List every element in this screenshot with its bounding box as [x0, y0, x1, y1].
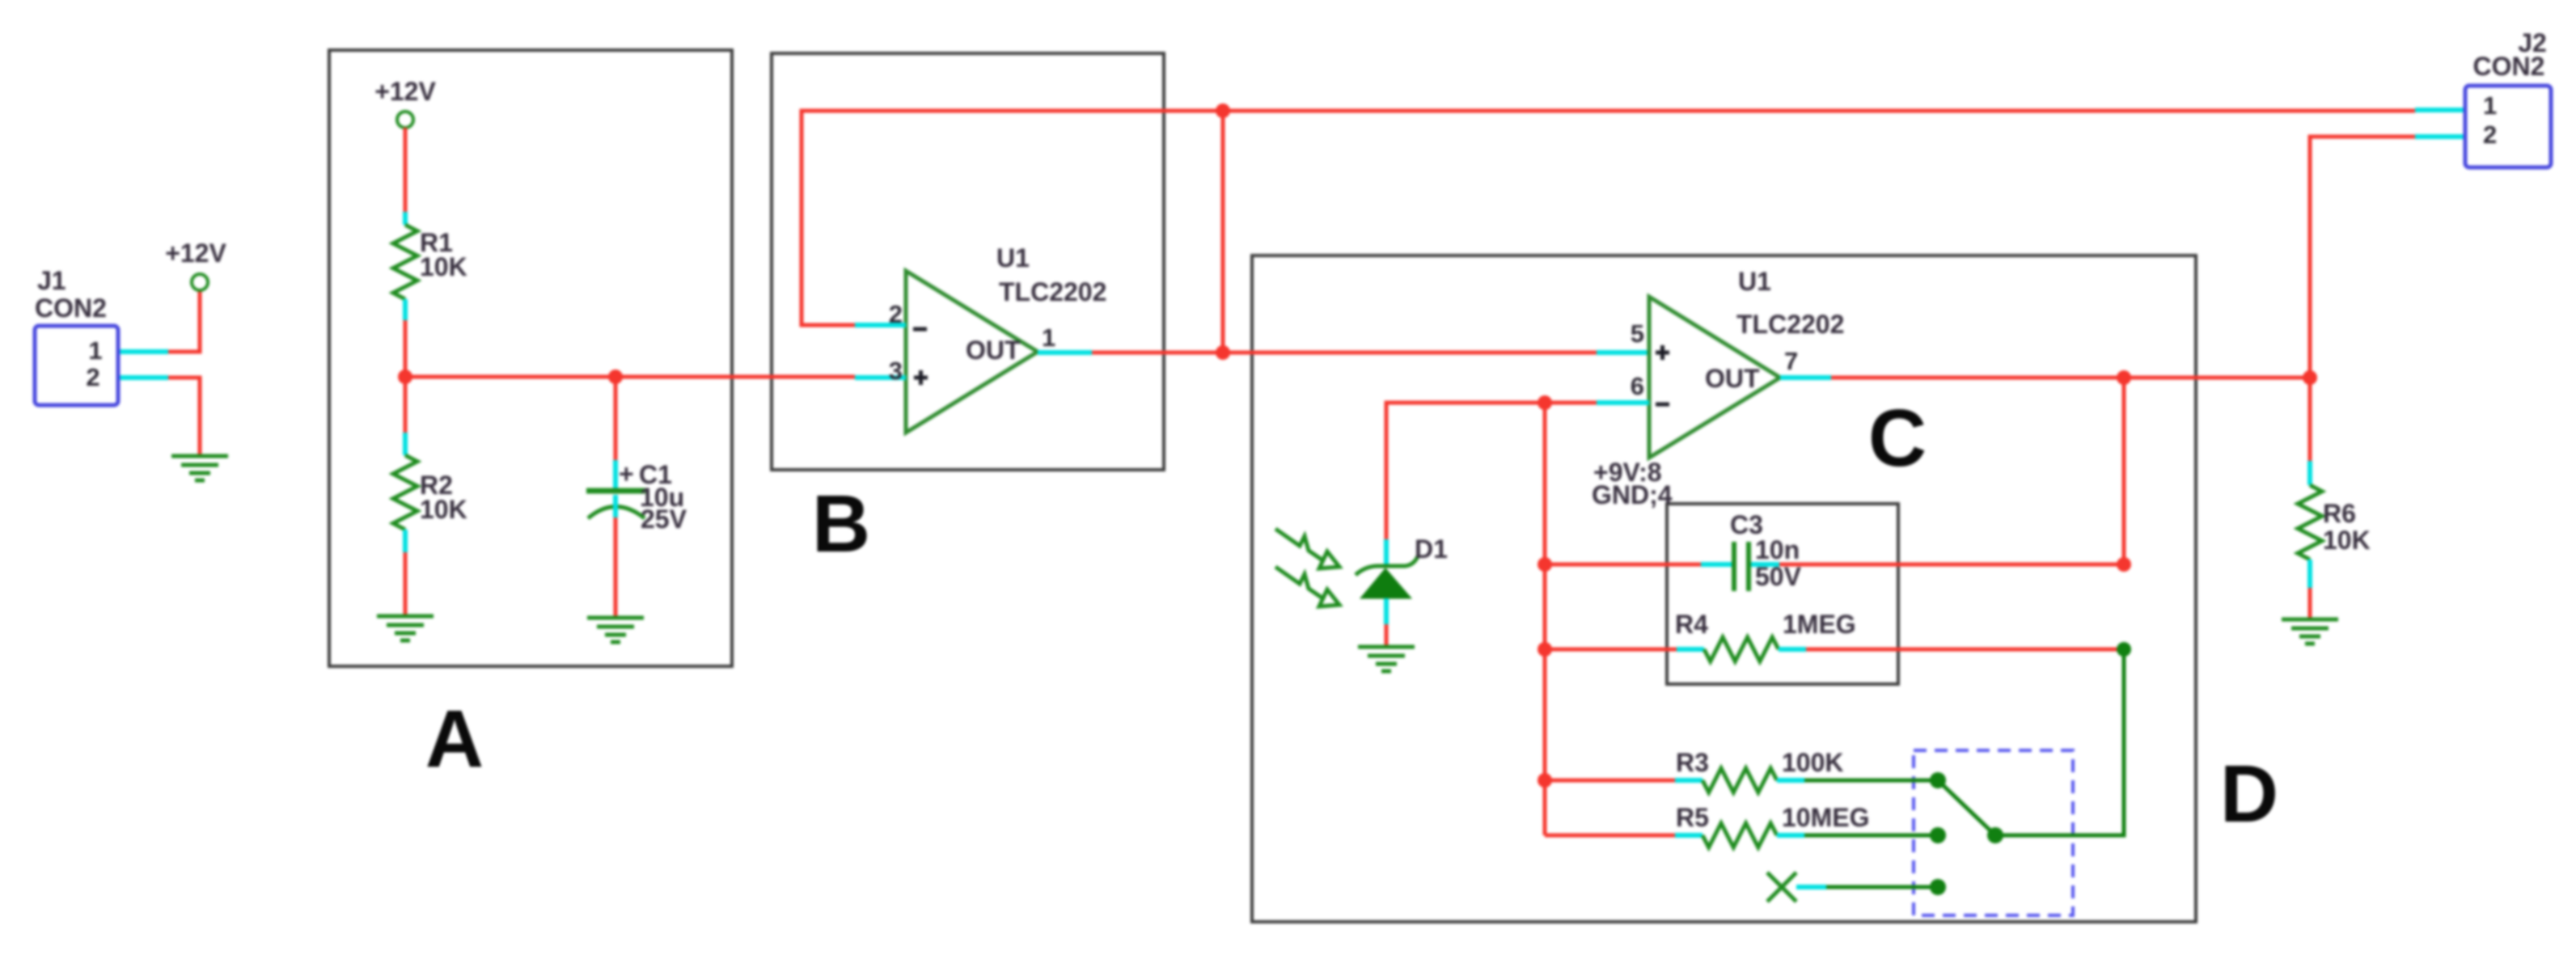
- label R5 10MEG: [1676, 803, 1869, 832]
- svg-text:1: 1: [1042, 323, 1055, 352]
- junction C3 right: [2117, 557, 2131, 572]
- wire R1 to node: [403, 299, 408, 377]
- wire +12V to R1: [404, 128, 408, 225]
- wire J1 pin1 to +12V: [118, 291, 200, 352]
- junction R4 left: [1538, 642, 1552, 657]
- svg-text:R4: R4: [1675, 610, 1708, 639]
- block B box: [772, 53, 1164, 470]
- label R2 10K: [420, 471, 467, 524]
- wire R2 to ground: [403, 530, 408, 615]
- wire C3 right: [1751, 562, 2124, 567]
- svg-text:10K: 10K: [2323, 526, 2371, 555]
- wire R5 left: [1545, 834, 1703, 838]
- wire switch pole to feedback: [1995, 649, 2124, 835]
- wire J1 pin2 to ground: [118, 378, 200, 454]
- svg-text:10MEG: 10MEG: [1782, 803, 1869, 832]
- power +12V (block A): [374, 77, 436, 128]
- label U1 TLC2202 (B): [996, 243, 1106, 306]
- svg-text:10K: 10K: [420, 495, 467, 524]
- wire feedback op-amp B: [802, 111, 1223, 325]
- wire op-amp C output: [1780, 375, 2310, 380]
- label block B: [812, 479, 870, 569]
- svg-text:1: 1: [2483, 91, 2497, 120]
- svg-text:10K: 10K: [420, 252, 467, 281]
- wire R3 left: [1545, 779, 1703, 783]
- svg-text:R5: R5: [1676, 803, 1709, 832]
- svg-text:+12V: +12V: [165, 239, 226, 268]
- wire X to switch: [1796, 885, 1938, 889]
- pin 7 label: [1784, 347, 1798, 375]
- wire R6 to ground: [2307, 560, 2312, 618]
- resistor R1: [393, 225, 417, 299]
- resistor R3: [1703, 768, 1777, 792]
- resistor R6: [2298, 485, 2322, 560]
- ground (D1): [1358, 647, 1415, 671]
- junction R3 left: [1538, 773, 1552, 788]
- junction C3 left: [1538, 557, 1552, 572]
- label R1 10K: [420, 228, 467, 281]
- svg-text:U1: U1: [996, 243, 1030, 272]
- pin 3 label: [889, 357, 903, 385]
- svg-text:5: 5: [1631, 319, 1644, 348]
- label D1: [1415, 534, 1448, 564]
- svg-text:10n: 10n: [1755, 535, 1800, 564]
- svg-text:6: 6: [1631, 372, 1644, 400]
- svg-text:TLC2202: TLC2202: [1736, 310, 1844, 339]
- junction feedback top: [1216, 104, 1230, 118]
- wire R4 right: [1779, 647, 2124, 652]
- svg-text:CON2: CON2: [2473, 52, 2545, 81]
- op-amp U1 (B): [855, 271, 1038, 433]
- no-connect X: [1767, 872, 1796, 902]
- pin 1 label: [1042, 323, 1055, 352]
- svg-text:C: C: [1868, 393, 1927, 484]
- label C1 10u 25V: [619, 459, 687, 534]
- wire node to R2: [404, 377, 408, 455]
- photodiode D1: [1356, 539, 1418, 645]
- wire inverting vertical: [1543, 403, 1547, 835]
- wire R5 right to switch: [1777, 833, 1938, 838]
- capacitor C1: [586, 491, 645, 518]
- wire node A to op-amp B pin3: [405, 375, 855, 379]
- light arrow 2: [1275, 567, 1339, 606]
- svg-text:7: 7: [1784, 347, 1798, 375]
- block A box: [329, 50, 732, 666]
- ground (R6): [2282, 619, 2338, 644]
- pin 6 label: [1631, 372, 1644, 400]
- label R4 1MEG: [1675, 610, 1856, 639]
- connector J2: [2465, 28, 2551, 167]
- switch dashed box: [1914, 750, 2073, 915]
- svg-text:3: 3: [889, 357, 903, 385]
- svg-text:R3: R3: [1676, 748, 1709, 777]
- junction pin6: [1538, 395, 1552, 410]
- label R3 100K: [1676, 748, 1844, 777]
- svg-text:GND;4: GND;4: [1592, 480, 1673, 509]
- svg-text:1MEG: 1MEG: [1783, 610, 1856, 639]
- label block D: [2220, 749, 2278, 839]
- svg-text:25V: 25V: [641, 505, 687, 534]
- svg-text:R6: R6: [2323, 499, 2356, 528]
- junction at R1/R2: [398, 370, 412, 384]
- label R6 10K: [2323, 499, 2371, 555]
- svg-text:J1: J1: [37, 266, 66, 295]
- junction feedback column: [2117, 370, 2131, 385]
- capacitor C3: [1734, 542, 1749, 591]
- wire output to R6: [2308, 378, 2312, 485]
- svg-text:D1: D1: [1415, 534, 1448, 564]
- wire C3 left: [1545, 563, 1732, 567]
- wire pin6 net: [1386, 403, 1649, 539]
- wire R4 left: [1545, 648, 1704, 652]
- svg-text:OUT: OUT: [1705, 364, 1760, 393]
- resistor R5: [1703, 823, 1777, 847]
- light arrow 1: [1275, 529, 1339, 568]
- svg-text:+: +: [619, 459, 634, 488]
- junction R4 right (green): [2117, 642, 2131, 657]
- svg-text:A: A: [425, 694, 484, 784]
- svg-text:2: 2: [86, 363, 99, 391]
- svg-text:2: 2: [2483, 120, 2497, 149]
- power +12V (J1): [165, 239, 226, 290]
- wire R3 right to switch: [1777, 778, 1938, 783]
- wire op-amp B output to op-amp C pin5: [1038, 350, 1649, 355]
- junction at op-amp B output: [1216, 345, 1230, 360]
- op-amp U1 (C): [1649, 297, 1780, 458]
- label U1 TLC2202 (C): [1736, 267, 1844, 339]
- ground (R2): [377, 616, 434, 640]
- label C3 10n 50V: [1730, 510, 1802, 591]
- svg-text:1: 1: [88, 336, 102, 365]
- wire output to J2 pin2: [2310, 137, 2465, 378]
- svg-text:OUT: OUT: [966, 336, 1021, 365]
- resistor R2: [393, 455, 417, 530]
- wire node to C1: [614, 377, 618, 488]
- switch SW1: [1930, 772, 2003, 895]
- svg-text:D: D: [2220, 749, 2278, 839]
- svg-text:B: B: [812, 479, 870, 569]
- svg-text:2: 2: [889, 300, 903, 328]
- ground (J1): [171, 456, 228, 480]
- wire feedback column top: [2122, 378, 2126, 564]
- label power pins +9V:8 GND:4: [1592, 458, 1673, 509]
- svg-text:CON2: CON2: [35, 294, 107, 323]
- svg-text:TLC2202: TLC2202: [999, 277, 1106, 306]
- label block C: [1868, 393, 1927, 484]
- svg-text:100K: 100K: [1782, 748, 1844, 777]
- wire C1 to ground: [614, 518, 618, 616]
- connector J1: [35, 266, 118, 405]
- svg-text:+12V: +12V: [374, 77, 436, 106]
- wire output net to J2 pin1: [1223, 110, 2465, 111]
- label block A: [425, 694, 484, 784]
- block C/D box: [1252, 256, 2196, 922]
- junction at C1: [608, 370, 623, 384]
- junction output right: [2303, 370, 2317, 385]
- resistor R4: [1704, 637, 1779, 661]
- feedback inner box (C3/R4): [1667, 504, 1898, 684]
- wire feedback vertical: [1221, 111, 1225, 353]
- pin 2 label: [889, 300, 903, 328]
- pin 5 label: [1631, 319, 1644, 348]
- ground (C1): [587, 618, 644, 642]
- svg-text:U1: U1: [1738, 267, 1771, 296]
